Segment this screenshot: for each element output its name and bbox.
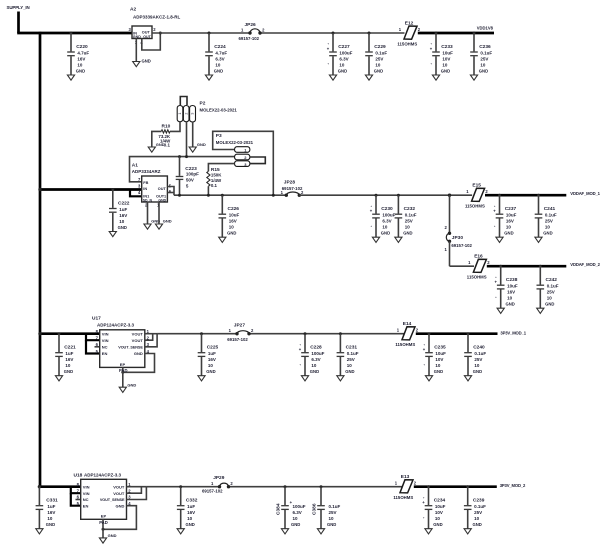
svg-text:C234: C234 [434, 498, 446, 504]
jumper JP26 [239, 22, 266, 41]
svg-text:GND: GND [142, 58, 151, 63]
svg-text:VDD1V8: VDD1V8 [477, 25, 494, 30]
svg-text:GND: GND [76, 69, 85, 74]
A1 pin 3 number [138, 184, 141, 189]
svg-text:10: 10 [229, 225, 235, 230]
jumper JP27 [227, 322, 254, 342]
svg-text:100uF: 100uF [382, 213, 395, 218]
wire A1 OUT pins join [167, 187, 174, 196]
svg-text:100pF: 100pF [186, 171, 199, 176]
svg-text:C221: C221 [64, 345, 76, 351]
wire U17 VIN/EN jog (bold) [86, 334, 100, 354]
svg-text:10: 10 [47, 516, 53, 521]
wire P2 pin2 down to FB [185, 122, 188, 158]
svg-text:C238: C238 [506, 277, 518, 283]
svg-text:GND: GND [133, 35, 141, 39]
svg-text:100uF: 100uF [339, 51, 352, 56]
U18 pin 6 number [77, 495, 80, 500]
svg-text:16V: 16V [506, 219, 514, 224]
svg-text:0.1uF: 0.1uF [474, 351, 486, 356]
wire FB net [130, 157, 235, 182]
svg-text:SUPPLY_IN: SUPPLY_IN [7, 5, 30, 10]
capacitor C229 [365, 32, 387, 81]
svg-text:4.7uF: 4.7uF [215, 51, 227, 56]
capacitor C237 [493, 194, 516, 243]
svg-text:GND: GND [473, 369, 482, 374]
ground P2 pin3 [189, 142, 206, 152]
svg-text:10: 10 [375, 63, 381, 68]
svg-text:69157-102: 69157-102 [451, 243, 472, 248]
svg-text:MOLEX22-03-2021: MOLEX22-03-2021 [216, 140, 254, 145]
U18 pin 7 number [77, 488, 80, 493]
capacitor C228 [299, 332, 325, 381]
svg-text:3P3V_MOD_1: 3P3V_MOD_1 [500, 330, 526, 335]
svg-text:GND: GND [206, 369, 215, 374]
svg-text:16V: 16V [77, 57, 85, 62]
capacitor C223 [176, 155, 199, 197]
svg-text:69157-102: 69157-102 [202, 489, 223, 494]
svg-text:1/4W: 1/4W [211, 178, 222, 183]
svg-text:1uF: 1uF [47, 504, 55, 509]
svg-text:0.1uF: 0.1uF [474, 504, 486, 509]
wire main supply vertical bus (bold) [39, 32, 42, 487]
svg-text:VOUT: VOUT [113, 484, 125, 489]
svg-text:10uF: 10uF [435, 351, 446, 356]
net SUPPLY_IN label [7, 5, 30, 10]
capacitor C226 [219, 194, 240, 243]
A1 pin 1 number [157, 202, 160, 207]
svg-text:ADP124ACPZ-3.3: ADP124ACPZ-3.3 [97, 323, 135, 328]
regulator U18 label [74, 473, 122, 479]
svg-text:1uF: 1uF [187, 504, 195, 509]
svg-text:10: 10 [347, 363, 353, 368]
resistor R15 [207, 167, 222, 188]
svg-text:GND: GND [118, 225, 127, 230]
svg-text:MOLEX22-03-2021: MOLEX22-03-2021 [200, 107, 238, 112]
ferrite bead E16 [467, 254, 490, 280]
svg-text:OUT: OUT [142, 30, 151, 34]
svg-text:GND: GND [227, 231, 236, 236]
svg-text:1uF: 1uF [65, 351, 73, 356]
svg-text:C239: C239 [473, 498, 485, 504]
svg-text:VOUT: VOUT [113, 491, 125, 496]
svg-text:115OHMS: 115OHMS [395, 342, 415, 347]
wire A2 pin4 feedback loop [142, 32, 162, 51]
svg-text:JP28: JP28 [284, 179, 296, 185]
svg-text:C332: C332 [186, 498, 198, 504]
ground A1 pin1 [155, 219, 171, 230]
svg-text:16V: 16V [187, 510, 195, 515]
wire U18 NC stub [76, 499, 81, 501]
svg-text:25V: 25V [480, 57, 488, 62]
regulator A2 label [130, 7, 181, 20]
svg-text:ADP3334ARZ: ADP3334ARZ [132, 169, 161, 174]
svg-text:C235: C235 [434, 345, 446, 351]
svg-text:10: 10 [208, 363, 214, 368]
svg-text:10V: 10V [442, 57, 450, 62]
svg-text:C231: C231 [346, 345, 358, 351]
U17 pin 4 number [147, 349, 150, 354]
svg-text:16V: 16V [65, 357, 73, 362]
svg-text:C242: C242 [546, 277, 558, 283]
capacitor C386 [312, 485, 341, 534]
svg-text:C227: C227 [338, 44, 350, 50]
svg-text:GND: GND [158, 198, 166, 202]
svg-text:GND: GND [381, 231, 390, 236]
svg-text:10: 10 [405, 225, 411, 230]
regulator A2 body [132, 26, 152, 39]
regulator U18 body [81, 479, 127, 519]
U18 pin 4 number [128, 501, 131, 506]
capacitor C235 [423, 332, 446, 381]
capacitor C231 [337, 332, 359, 381]
svg-text:GND: GND [310, 369, 319, 374]
svg-text:GND: GND [345, 369, 354, 374]
svg-text:6.3V: 6.3V [293, 510, 302, 515]
svg-text:NC: NC [102, 345, 108, 350]
svg-text:25V: 25V [474, 357, 482, 362]
ferrite bead E14 [395, 321, 418, 347]
svg-text:10V: 10V [435, 357, 443, 362]
capacitor C239 [464, 485, 486, 534]
svg-text:16V: 16V [119, 213, 127, 218]
svg-text:10V: 10V [435, 510, 443, 515]
svg-text:E14: E14 [403, 321, 412, 327]
wire U18 output net [146, 486, 402, 488]
wire U18 GND pin4 loop [102, 506, 137, 531]
svg-text:ADP3339AKCZ-1.8-RL: ADP3339AKCZ-1.8-RL [133, 15, 181, 20]
svg-text:VDDAF_MOD_1: VDDAF_MOD_1 [570, 191, 600, 196]
wire U17 EP pad stem [119, 367, 128, 387]
jumper JP30 [444, 194, 472, 267]
svg-text:0.1: 0.1 [164, 143, 171, 148]
svg-text:16V: 16V [47, 510, 55, 515]
wire A2 OUT to E12 [152, 32, 405, 34]
U17 pin 3 number [147, 342, 150, 347]
svg-text:10: 10 [442, 63, 448, 68]
ground U17 pad [119, 382, 136, 392]
svg-text:E12: E12 [405, 20, 414, 26]
wire U18 VOUT pins join [127, 487, 147, 500]
capacitor C240 [464, 332, 486, 381]
svg-text:1uF: 1uF [208, 351, 216, 356]
svg-text:E13: E13 [401, 474, 410, 480]
svg-text:GND: GND [473, 522, 482, 527]
U18 pin 5 number [77, 501, 80, 506]
svg-text:OUT: OUT [158, 187, 167, 191]
svg-text:VOUT: VOUT [132, 338, 144, 343]
svg-text:0.1uF: 0.1uF [545, 213, 557, 218]
svg-text:C237: C237 [505, 206, 517, 212]
svg-text:10: 10 [507, 296, 513, 301]
header P3 label [216, 133, 254, 145]
svg-text:VIN: VIN [102, 338, 109, 343]
svg-text:E15: E15 [472, 183, 481, 189]
wire row3 IN branch (bold) [38, 332, 99, 335]
wire row2 IN branch (bold) [38, 188, 141, 191]
svg-text:GND: GND [127, 382, 136, 387]
U17 pin 6 number [96, 342, 99, 347]
svg-text:GND: GND [214, 69, 223, 74]
svg-text:0.1uF: 0.1uF [547, 284, 559, 289]
svg-text:C224: C224 [214, 44, 226, 50]
svg-text:6.3V: 6.3V [311, 357, 320, 362]
svg-text:GND: GND [186, 522, 195, 527]
capacitor C236 [470, 32, 492, 81]
wire A1 pin2 to ground [147, 202, 149, 224]
svg-text:GND: GND [545, 302, 554, 307]
svg-text:16V: 16V [507, 290, 515, 295]
svg-text:10: 10 [215, 63, 221, 68]
svg-text:P3: P3 [216, 133, 222, 139]
ferrite bead E15 [465, 183, 488, 209]
capacitor C238 [495, 265, 518, 314]
svg-text:C228: C228 [310, 345, 322, 351]
U18 pin 1 number [128, 482, 131, 487]
U18 pin 2 number [128, 488, 131, 493]
svg-text:4.7uF: 4.7uF [77, 51, 89, 56]
U17 pin 2 number [147, 336, 150, 341]
header P2 pin 2 [183, 106, 189, 122]
svg-text:6.3V: 6.3V [382, 219, 391, 224]
wire row4 IN branch (bold) [38, 485, 81, 488]
svg-text:IN: IN [143, 187, 147, 191]
svg-text:VOUT_SENSE: VOUT_SENSE [118, 346, 143, 350]
svg-text:69157-102: 69157-102 [239, 36, 260, 41]
svg-text:10: 10 [435, 516, 441, 521]
svg-text:GND: GND [433, 522, 442, 527]
svg-text:10: 10 [119, 219, 125, 224]
svg-text:GND: GND [506, 302, 515, 307]
svg-text:25V: 25V [474, 510, 482, 515]
svg-text:C233: C233 [441, 44, 453, 50]
svg-text:A1: A1 [132, 162, 138, 168]
svg-text:100uF: 100uF [293, 504, 306, 509]
svg-text:C220: C220 [76, 44, 88, 50]
svg-text:GND: GND [441, 69, 450, 74]
wire U17 VOUT pins join [145, 334, 157, 347]
regulator A1 label [132, 162, 161, 174]
svg-text:69157-102: 69157-102 [227, 337, 248, 342]
svg-text:C226: C226 [228, 206, 240, 212]
svg-text:JP26: JP26 [245, 22, 257, 28]
svg-text:115OHMS: 115OHMS [397, 41, 417, 46]
wire U17 output net [157, 333, 404, 335]
svg-text:C229: C229 [374, 44, 386, 50]
svg-text:GND: GND [504, 231, 513, 236]
svg-text:U17: U17 [92, 316, 101, 322]
regulator U17 label [92, 316, 135, 328]
svg-text:NC: NC [83, 497, 89, 502]
A1 pin 6 number [169, 189, 172, 194]
svg-text:GND: GND [64, 369, 73, 374]
A2 pin 1 ground [133, 39, 151, 67]
svg-text:25V: 25V [375, 57, 383, 62]
wire top bus (bold) to A2 IN [17, 32, 132, 35]
capacitor C233 [430, 32, 453, 81]
wire P3 pin3 to R15 [208, 164, 234, 172]
svg-text:50V: 50V [186, 177, 194, 182]
wire SUPPLY_IN drop [17, 12, 20, 34]
wire U18 EP pad stem [99, 519, 108, 538]
header P2 pin 3 [190, 106, 196, 123]
capacitor C232 [395, 194, 417, 243]
wire VDDAF_MOD_2 rail (bold) [487, 265, 567, 268]
U17 pin 8 number [96, 329, 99, 334]
resistor R10 [158, 124, 171, 148]
capacitor C384 [276, 485, 306, 534]
svg-text:EP: EP [101, 514, 107, 519]
svg-text:25V: 25V [329, 510, 337, 515]
svg-text:ADP124ACPZ-3.3: ADP124ACPZ-3.3 [84, 473, 122, 478]
svg-text:0.1: 0.1 [211, 183, 218, 188]
svg-text:3P3V_MOD_2: 3P3V_MOD_2 [500, 483, 526, 488]
ground U18 pad [99, 533, 116, 543]
wire 3P3V_MOD_1 rail (bold) [416, 332, 498, 335]
svg-text:10uF: 10uF [506, 213, 517, 218]
svg-text:115OHMS: 115OHMS [465, 204, 485, 209]
net VDD1V8 label [477, 25, 494, 30]
svg-text:1: 1 [178, 113, 182, 115]
header P2 pin 1 [177, 106, 183, 122]
A1 pin 7 number [138, 177, 141, 182]
wire JP30 to E16 [450, 265, 475, 267]
U18 pin 8 number [77, 482, 80, 487]
svg-text:10: 10 [187, 516, 193, 521]
svg-text:GND: GND [197, 142, 206, 147]
A2 pin 2 number [153, 27, 156, 32]
svg-text:25V: 25V [405, 219, 413, 224]
svg-text:10: 10 [339, 63, 345, 68]
svg-text:10: 10 [382, 225, 388, 230]
svg-text:GND: GND [291, 522, 300, 527]
capacitor C227 [327, 32, 353, 81]
svg-text:C386: C386 [312, 503, 318, 515]
wire P3 pins2-3 strap [250, 157, 265, 164]
svg-text:0.1uF: 0.1uF [329, 504, 341, 509]
wire A1 output net [174, 194, 286, 196]
svg-text:GND: GND [134, 351, 143, 356]
svg-text:C236: C236 [479, 44, 491, 50]
U17 pin 7 number [96, 336, 99, 341]
capacitor C221 [55, 332, 76, 381]
U17 pin 5 number [96, 349, 99, 354]
svg-text:JP30: JP30 [452, 235, 464, 241]
ferrite bead E12 [397, 20, 420, 46]
svg-text:GND: GND [163, 219, 172, 224]
svg-text:P2: P2 [200, 101, 206, 107]
svg-text:GND: GND [374, 69, 383, 74]
svg-text:2: 2 [184, 113, 188, 115]
capacitor C332 [177, 485, 198, 534]
A2 pin 1 number [135, 40, 138, 45]
svg-text:GND: GND [108, 533, 117, 538]
svg-text:10: 10 [474, 516, 480, 521]
capacitor C241 [535, 194, 557, 243]
svg-text:C384: C384 [276, 503, 282, 515]
wire P3 pin1 loop [213, 131, 275, 196]
header P3 pin 1 [235, 147, 250, 153]
svg-text:C241: C241 [544, 206, 556, 212]
svg-text:0.1uF: 0.1uF [405, 213, 417, 218]
wire R15 to output net [207, 186, 210, 197]
svg-text:EP: EP [120, 362, 126, 367]
A1 pin 2 number [145, 202, 148, 207]
svg-text:EN: EN [83, 503, 89, 508]
A2 pin 3 number [128, 27, 131, 32]
capacitor C242 [537, 265, 559, 314]
svg-text:100uF: 100uF [311, 351, 324, 356]
svg-text:10: 10 [480, 63, 486, 68]
svg-text:E16: E16 [474, 254, 483, 260]
svg-text:GND: GND [403, 231, 412, 236]
jumper JP28 [281, 179, 304, 197]
svg-text:PAD: PAD [99, 520, 108, 525]
net VDDAF_MOD_2 label [570, 262, 600, 267]
wire U17 GND pin4 loop [121, 354, 154, 374]
svg-text:GND: GND [156, 142, 165, 147]
net 3P3V_MOD_1 label [500, 330, 526, 335]
svg-text:GND: GND [46, 522, 55, 527]
svg-text:VDDAF_MOD_2: VDDAF_MOD_2 [570, 262, 600, 267]
svg-text:GND: GND [116, 503, 125, 508]
svg-text:10: 10 [547, 296, 553, 301]
svg-text:16V: 16V [229, 219, 237, 224]
capacitor C230 [370, 194, 396, 243]
svg-text:115OHMS: 115OHMS [393, 495, 413, 500]
svg-text:69157-102: 69157-102 [282, 186, 303, 191]
svg-text:PAD: PAD [119, 368, 128, 373]
jumper JP29 [202, 475, 233, 494]
svg-text:VIN: VIN [102, 331, 109, 336]
ferrite bead E13 [393, 474, 416, 500]
svg-text:JP27: JP27 [234, 322, 246, 328]
svg-text:0.1uF: 0.1uF [480, 51, 492, 56]
svg-text:C222: C222 [118, 201, 130, 207]
svg-text:10: 10 [474, 363, 480, 368]
wire A1 pin1 to ground [158, 202, 160, 224]
wire P2 pin3 to ground [192, 122, 194, 147]
wire A1 IN1 jog [130, 190, 142, 197]
regulator A1 body [142, 176, 168, 202]
header P3 pin 3 [235, 161, 250, 167]
svg-text:10: 10 [545, 225, 551, 230]
regulator U17 body [100, 330, 145, 368]
capacitor C234 [422, 485, 445, 534]
svg-text:C331: C331 [46, 498, 58, 504]
A1 pin 5 number [169, 183, 172, 188]
svg-text:115OHMS: 115OHMS [467, 275, 487, 280]
capacitor C220 [67, 32, 89, 81]
svg-text:6.3V: 6.3V [215, 57, 224, 62]
wire VDD1V8 rail (bold) [418, 32, 494, 35]
svg-text:3: 3 [191, 113, 195, 115]
svg-text:OUT: OUT [143, 35, 151, 39]
capacitor C225 [198, 332, 219, 381]
svg-text:FB: FB [143, 181, 148, 185]
svg-text:GND: GND [327, 522, 336, 527]
svg-text:VOUT: VOUT [132, 331, 144, 336]
svg-text:JP29: JP29 [213, 475, 225, 481]
svg-text:10: 10 [293, 516, 299, 521]
header P2 label [200, 101, 238, 113]
svg-text:GND: GND [479, 69, 488, 74]
svg-text:VOUT_SENSE: VOUT_SENSE [100, 498, 125, 502]
ground A1 pin2 [144, 219, 160, 230]
svg-text:10uF: 10uF [435, 504, 446, 509]
net VDDAF_MOD_1 label [570, 191, 600, 196]
svg-text:10: 10 [329, 516, 335, 521]
